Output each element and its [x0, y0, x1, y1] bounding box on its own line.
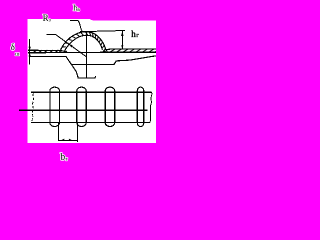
weld rim hatching: [60, 32, 105, 52]
svg-text:ш: ш: [15, 52, 20, 58]
leader from top label to dome apex: [70, 20, 82, 31]
page background: [0, 0, 156, 169]
sheet interface / chord line: [28, 51, 156, 54]
dimension S upper arrowhead: [29, 47, 31, 50]
pitch dimension right arrowhead: [69, 139, 72, 141]
weld bead inner arc: [64, 35, 103, 52]
radius arrowhead: [69, 44, 72, 47]
svg-text:з: з: [49, 18, 51, 24]
right break line: [150, 92, 152, 122]
lower sheet bottom line (left) and lower bulge: [30, 57, 96, 78]
white drawing area: [28, 19, 156, 143]
weld spot 3: [105, 87, 115, 126]
dimension S lower arrowhead: [29, 53, 31, 56]
dimension h (vertical, right of dome): [121, 31, 123, 49]
left sheet hatching: [33, 50, 58, 53]
pitch dimension left arrowhead: [61, 139, 64, 141]
upper sheet top line (left): [28, 49, 62, 51]
dimension line with outward arrows: [59, 139, 78, 141]
seam centerline: [19, 109, 148, 111]
radius leader line R: [47, 34, 86, 56]
weld spot 1: [50, 87, 60, 126]
weld bead outer arc: [60, 32, 108, 53]
lower sheet bottom line (right): [71, 56, 156, 65]
dimension h upper arrowhead: [121, 31, 124, 36]
upper sheet top line (right): [106, 48, 156, 51]
dimension S (sheet thickness, left): [29, 39, 31, 64]
left break line: [32, 94, 34, 122]
dimension h lower arrowhead: [121, 45, 123, 49]
svg-text:в: в: [77, 7, 80, 13]
weld spot 4: [137, 87, 144, 127]
sheet top edge line: [31, 91, 151, 93]
right sheet hatching: [110, 49, 157, 52]
junction blob right base: [103, 50, 107, 53]
sheet bottom edge line: [31, 121, 150, 123]
extension lines for pitch dimension: [59, 122, 78, 141]
weld spot 2: [77, 87, 86, 126]
junction blob left base: [62, 51, 68, 53]
weld centerline: [86, 32, 88, 78]
apex extension line: [80, 31, 125, 32]
